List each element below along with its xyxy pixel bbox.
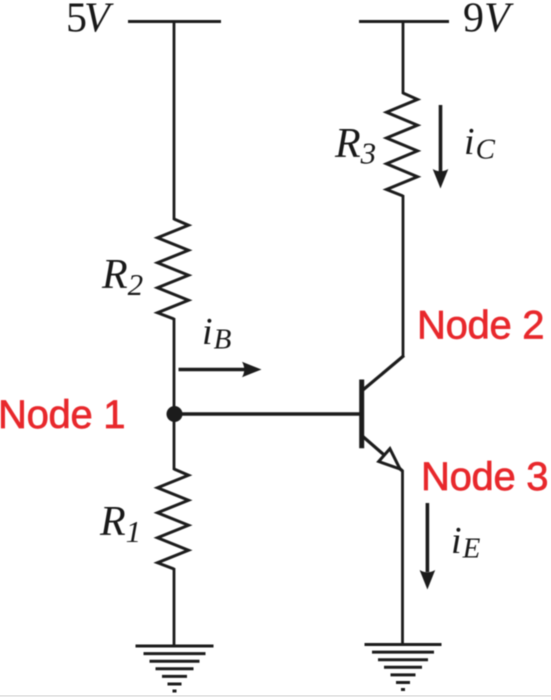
resistor R3 xyxy=(387,93,418,196)
svg-text:Node 1: Node 1 xyxy=(0,393,125,437)
9V rail xyxy=(359,20,449,23)
svg-text:R2: R2 xyxy=(101,252,143,302)
svg-text:Node 2: Node 2 xyxy=(417,304,544,348)
svg-text:9V: 9V xyxy=(463,0,514,42)
node Node1 junction xyxy=(167,406,183,422)
ground left xyxy=(136,646,214,691)
wire xyxy=(173,318,176,414)
svg-text:iC: iC xyxy=(464,121,496,166)
resistor R1 xyxy=(158,469,189,569)
svg-text:R1: R1 xyxy=(99,499,141,549)
5V rail xyxy=(128,20,221,23)
current arrow iE xyxy=(420,503,436,590)
current arrow iB xyxy=(179,362,262,378)
svg-text:5V: 5V xyxy=(66,0,114,42)
wire xyxy=(173,22,176,221)
current arrow iC xyxy=(433,105,449,189)
resistor R2 xyxy=(158,219,189,319)
ground right xyxy=(365,645,442,690)
svg-text:iE: iE xyxy=(451,520,481,565)
svg-text:iB: iB xyxy=(202,311,232,356)
wire base xyxy=(174,412,360,415)
wire xyxy=(402,22,405,95)
transistor Q1 xyxy=(362,356,404,472)
wire xyxy=(173,414,176,470)
svg-text:Node 3: Node 3 xyxy=(421,455,548,499)
wire collector xyxy=(402,195,405,357)
wire emitter xyxy=(401,470,404,645)
svg-text:R3: R3 xyxy=(334,121,376,171)
wire xyxy=(173,568,176,646)
